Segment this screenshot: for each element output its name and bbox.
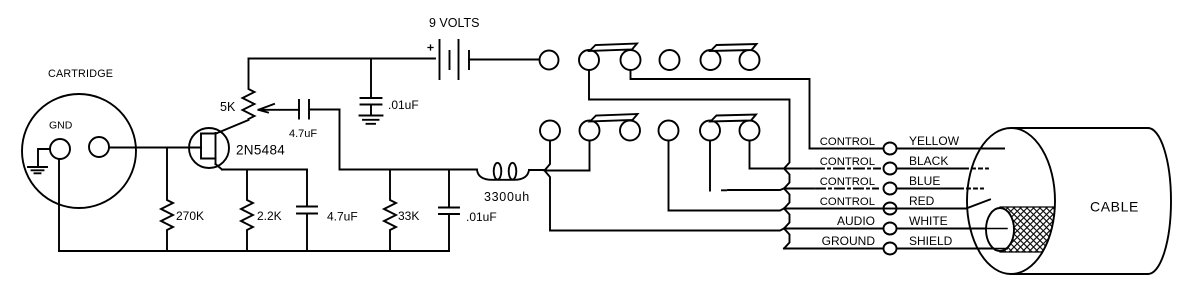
svg-text:CONTROL: CONTROL	[820, 176, 875, 188]
wire d6 to black row	[750, 141, 785, 169]
resistor R4 33K	[384, 170, 396, 252]
row5 white wire into conductor	[897, 228, 1008, 230]
terminal circle row5	[884, 223, 897, 235]
cable outer body	[1011, 128, 1148, 274]
svg-text:YELLOW: YELLOW	[909, 134, 960, 148]
wire c3 to yellow row	[631, 70, 810, 149]
switch contact d2	[580, 121, 600, 141]
switch contact c1	[540, 51, 559, 70]
switch contact d4	[659, 121, 679, 141]
switch contact d6	[740, 121, 760, 141]
wire GND pin down to ground rail	[58, 159, 60, 251]
svg-text:BLACK: BLACK	[909, 154, 948, 168]
potentiometer R3 5K	[243, 59, 255, 120]
resistor R2 2.2K	[241, 170, 253, 252]
row 1 yellow wire	[810, 148, 1005, 150]
switch contact c5	[701, 50, 721, 70]
wire signal pin to gate	[109, 147, 201, 149]
svg-text:33K: 33K	[398, 209, 419, 223]
wire d1 to audio row	[545, 141, 785, 231]
ground symbol at cartridge	[28, 167, 47, 173]
inductor loop 2	[509, 163, 517, 180]
row 5 white wire	[784, 228, 884, 230]
capacitor C4 .01uF vertical	[439, 170, 459, 252]
switch contact d5	[700, 121, 720, 141]
wire battery to switch	[469, 59, 540, 61]
row 4 red wire	[784, 200, 990, 209]
svg-text:BLUE: BLUE	[909, 174, 940, 188]
transistor drain lead	[216, 120, 249, 134]
potentiometer wiper arrow	[259, 104, 300, 113]
transistor source lead	[216, 164, 223, 170]
row 2 black dash-dot	[814, 168, 880, 170]
inductor loop 1	[494, 163, 502, 180]
row 3 blue wire	[784, 188, 983, 190]
switch bar d5-d6	[711, 115, 757, 122]
svg-text:4.7uF: 4.7uF	[289, 128, 317, 140]
cable hatch shield	[1000, 207, 1055, 252]
transistor internal gate bar	[201, 134, 216, 159]
svg-text:CONTROL: CONTROL	[820, 136, 875, 148]
cable outer end ellipse	[967, 128, 1055, 274]
row 3 blue dash-dot	[816, 188, 878, 190]
wire d5 to blue row	[710, 141, 784, 191]
row4 wire circle join	[884, 208, 896, 210]
ground symbol at battery	[360, 116, 383, 124]
battery plus sign	[428, 45, 433, 50]
svg-text:CONTROL: CONTROL	[820, 156, 875, 168]
svg-text:3300uh: 3300uh	[484, 190, 530, 204]
svg-text:GND: GND	[49, 120, 73, 132]
wire d2 to junction	[589, 141, 591, 171]
row 2 black wire	[784, 168, 988, 170]
wire pin to ground symbol	[38, 149, 50, 166]
row5 wire after circle	[897, 228, 1008, 230]
switch bar c2-c3	[590, 44, 638, 52]
wire coupling cap to drain rail	[340, 110, 478, 170]
terminal circle row1	[884, 143, 897, 155]
svg-text:RED: RED	[909, 194, 935, 208]
inductor L1 3300uh bowl	[477, 170, 529, 180]
terminal circle row3	[884, 183, 897, 195]
terminal circle row2	[884, 163, 897, 175]
transistor Q1 2N5484 body	[189, 128, 229, 168]
ground rail	[59, 250, 449, 252]
row1 wire after circle	[897, 148, 1005, 150]
switch contact c3	[621, 50, 641, 70]
switch bar d2-d3	[590, 114, 638, 122]
wire inductor to junction	[529, 169, 590, 172]
switch contact d3	[620, 121, 640, 141]
wire c2 to ground row	[589, 70, 790, 249]
svg-text:.01uF: .01uF	[388, 98, 419, 112]
wire d4 to red row	[669, 141, 785, 211]
switch contact c4	[660, 50, 680, 70]
cable inner conductor	[986, 208, 1014, 251]
svg-text:CABLE: CABLE	[1090, 199, 1139, 215]
battery B1 9 volts	[440, 40, 470, 79]
source rail	[222, 169, 307, 171]
resistor R1 270K	[161, 148, 173, 251]
svg-text:AUDIO: AUDIO	[837, 214, 875, 228]
capacitor C3 4.7uF coupling	[299, 100, 340, 119]
switch contact c6	[740, 50, 760, 70]
switch contact d1	[540, 121, 560, 141]
switch contact c2	[579, 50, 599, 70]
terminal circle row6	[884, 243, 897, 255]
cartridge connector body	[22, 94, 136, 208]
capacitor C1 .01uF bypass	[361, 59, 382, 115]
transistor channel bar	[215, 133, 217, 164]
svg-text:WHITE: WHITE	[909, 214, 948, 228]
cartridge pin GND	[50, 139, 70, 159]
cable right cap	[1148, 128, 1171, 274]
row 6 ground wire	[784, 248, 1007, 250]
svg-text:5K: 5K	[220, 100, 236, 114]
switch bar c5-c6	[711, 44, 757, 51]
svg-text:GROUND: GROUND	[822, 234, 876, 248]
svg-text:4.7uF: 4.7uF	[327, 210, 358, 224]
svg-text:CONTROL: CONTROL	[820, 196, 875, 208]
svg-text:CARTRIDGE: CARTRIDGE	[48, 68, 113, 80]
svg-text:2N5484: 2N5484	[236, 143, 285, 158]
top supply rail	[249, 58, 436, 60]
svg-text:2.2K: 2.2K	[257, 209, 282, 223]
cartridge pin signal	[89, 137, 109, 157]
row6 shield wire into braid	[980, 248, 1007, 250]
terminal circle row4	[884, 203, 897, 215]
svg-text:9 VOLTS: 9 VOLTS	[429, 16, 479, 30]
svg-text:270K: 270K	[176, 209, 204, 223]
svg-text:.01uF: .01uF	[466, 210, 497, 224]
svg-text:SHIELD: SHIELD	[909, 234, 953, 248]
capacitor C2 4.7uF vertical	[297, 170, 317, 252]
